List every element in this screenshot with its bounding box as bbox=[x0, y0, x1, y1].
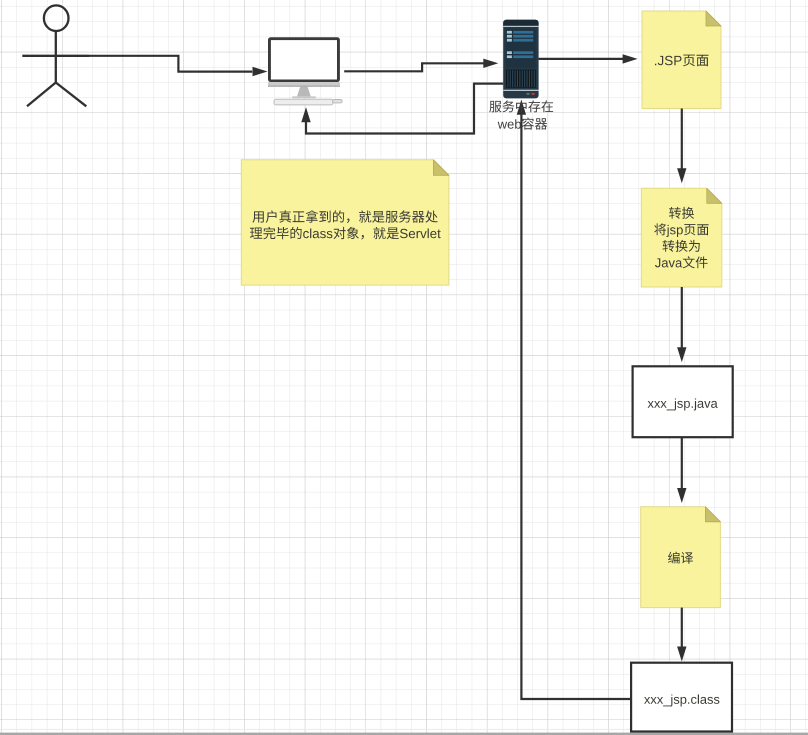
note: JSP页面 bbox=[642, 11, 721, 109]
wire: 转换 note down to xxx_jsp.java bbox=[681, 287, 683, 348]
wire: monitor to server bbox=[344, 63, 484, 71]
monitor: client computer bbox=[268, 37, 342, 105]
note: 用户真正拿到的…就是Servlet bbox=[241, 160, 449, 285]
wire: 编译 note down to xxx_jsp.class bbox=[681, 608, 683, 648]
actor: stick figure user bbox=[22, 5, 89, 106]
wire: xxx_jsp.java down to 编译 note bbox=[681, 437, 683, 489]
label: 服务中存在 web容器 bbox=[489, 100, 553, 129]
box: xxx_jsp.java bbox=[633, 366, 733, 437]
note: 编译 bbox=[641, 507, 721, 608]
wire: server to JSP note bbox=[539, 58, 624, 60]
server rack: web container host bbox=[503, 20, 538, 99]
wire: server to monitor (response) bbox=[306, 84, 503, 134]
wire: JSP note down to 转换 note bbox=[681, 109, 683, 170]
wire: xxx_jsp.class back to server bbox=[521, 114, 631, 700]
box: xxx_jsp.class bbox=[631, 663, 732, 732]
wire: user to monitor bbox=[89, 56, 252, 72]
note: 转换/将jsp页面/转换为/Java文件 bbox=[641, 188, 722, 287]
